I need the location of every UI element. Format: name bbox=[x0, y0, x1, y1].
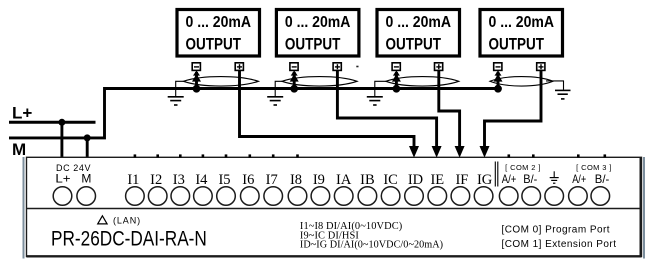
svg-text:IE: IE bbox=[430, 172, 444, 188]
terminal - of U3 bbox=[392, 63, 400, 71]
terminal - of U2 bbox=[290, 63, 298, 71]
wire M to terminal bbox=[86, 138, 89, 158]
svg-text:(LAN): (LAN) bbox=[113, 216, 141, 226]
terminal ticks bbox=[134, 154, 606, 157]
svg-text:IC: IC bbox=[383, 172, 398, 188]
wire shield arrow U2 bbox=[290, 70, 299, 92]
svg-text:I2: I2 bbox=[150, 172, 162, 188]
svg-text:OUTPUT: OUTPUT bbox=[186, 35, 242, 54]
terminal + of U1 bbox=[235, 63, 243, 71]
svg-text:I1: I1 bbox=[127, 172, 139, 188]
PLC terminal block body bbox=[23, 157, 25, 259]
svg-text:IG: IG bbox=[477, 172, 493, 188]
svg-text:ID: ID bbox=[408, 172, 423, 188]
output box U3 bbox=[377, 10, 460, 57]
wire U4+ to IG bbox=[485, 71, 542, 149]
svg-text:M: M bbox=[81, 172, 91, 186]
svg-text:0 ... 20mA: 0 ... 20mA bbox=[285, 14, 351, 31]
svg-text:0 ... 20mA: 0 ... 20mA bbox=[386, 14, 452, 31]
svg-text:M: M bbox=[12, 140, 26, 159]
ground G2 bbox=[267, 81, 283, 105]
svg-text:A/+: A/+ bbox=[502, 172, 517, 186]
LAN triangle bbox=[98, 216, 107, 224]
wire L+ to terminal bbox=[60, 122, 63, 157]
svg-text:0 ... 20mA: 0 ... 20mA bbox=[186, 14, 252, 31]
svg-text:B/-: B/- bbox=[523, 172, 537, 186]
wire M rail and shield bus bbox=[9, 89, 498, 138]
wire shield arrow U4 bbox=[494, 70, 503, 92]
terminal circles bbox=[53, 187, 609, 206]
terminal + of U3 bbox=[435, 63, 443, 71]
svg-text:I4: I4 bbox=[195, 172, 208, 188]
shield ellipse U2 bbox=[282, 77, 357, 86]
svg-text:I8: I8 bbox=[290, 172, 302, 188]
svg-text:[ COM 3 ]: [ COM 3 ] bbox=[576, 163, 612, 172]
svg-text:L+: L+ bbox=[55, 172, 70, 186]
svg-text:0 ... 20mA: 0 ... 20mA bbox=[489, 14, 555, 31]
svg-text:[COM 0] Program Port: [COM 0] Program Port bbox=[502, 225, 610, 236]
node M junction bbox=[84, 134, 91, 141]
wire U3+ to IF bbox=[439, 71, 460, 149]
svg-text:I3: I3 bbox=[173, 172, 185, 188]
node L+ junction bbox=[58, 119, 65, 126]
svg-text:[COM 1] Extension Port: [COM 1] Extension Port bbox=[502, 239, 617, 250]
shield ellipse U4 bbox=[490, 77, 553, 86]
svg-text:I9: I9 bbox=[313, 172, 325, 188]
terminal - of U4 bbox=[494, 63, 502, 71]
svg-text:PR-26DC-DAI-RA-N: PR-26DC-DAI-RA-N bbox=[51, 228, 207, 251]
wire shield arrow U1 bbox=[192, 70, 201, 92]
shield ellipse U3 bbox=[386, 77, 459, 86]
svg-text:[ COM 2 ]: [ COM 2 ] bbox=[505, 163, 541, 172]
svg-text:B/-: B/- bbox=[595, 172, 610, 186]
terminal - of U1 bbox=[192, 63, 200, 71]
svg-text:A/+: A/+ bbox=[572, 172, 586, 186]
ground COM bbox=[550, 171, 559, 183]
svg-text:I5: I5 bbox=[218, 172, 230, 188]
terminal + of U2 bbox=[333, 63, 341, 71]
svg-text:I7: I7 bbox=[266, 172, 278, 188]
ground G3 bbox=[367, 81, 386, 105]
wire U1+ to ID bbox=[240, 71, 415, 149]
ground G1 bbox=[168, 81, 184, 105]
wire U2+ to IE bbox=[337, 71, 436, 149]
terminal labels I1-IG bbox=[127, 172, 492, 188]
svg-text:OUTPUT: OUTPUT bbox=[489, 35, 545, 54]
terminal + of U4 bbox=[537, 63, 545, 71]
svg-text:IB: IB bbox=[360, 172, 375, 188]
svg-text:IF: IF bbox=[455, 172, 468, 188]
wire shield arrow U3 bbox=[392, 70, 401, 92]
output box U1 bbox=[177, 10, 260, 57]
svg-text:OUTPUT: OUTPUT bbox=[386, 35, 442, 54]
output box U4 bbox=[480, 10, 563, 57]
svg-text:IA: IA bbox=[336, 172, 352, 188]
svg-text:L+: L+ bbox=[12, 104, 32, 123]
divider line bbox=[27, 208, 642, 210]
svg-text:I6: I6 bbox=[242, 172, 254, 188]
COM separator double bar bbox=[494, 162, 496, 187]
output box U2 bbox=[276, 10, 359, 57]
shield ellipse U1 bbox=[183, 77, 258, 86]
svg-text:OUTPUT: OUTPUT bbox=[285, 35, 341, 54]
ground G4 bbox=[546, 81, 571, 99]
wire L+ rail bbox=[9, 121, 96, 124]
svg-text:ID~IG DI/AI(0~10VDC/0~20mA): ID~IG DI/AI(0~10VDC/0~20mA) bbox=[300, 240, 443, 251]
stray mark artifact bbox=[356, 66, 358, 68]
